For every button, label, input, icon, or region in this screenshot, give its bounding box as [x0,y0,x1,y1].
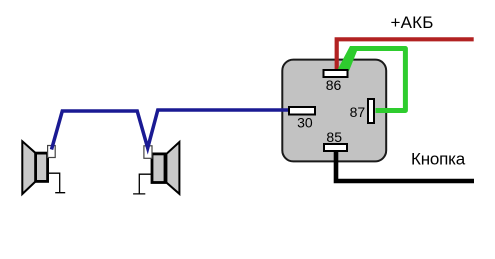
svg-text:30: 30 [297,114,313,130]
svg-text:87: 87 [350,104,366,120]
svg-text:86: 86 [326,77,342,93]
svg-text:+АКБ: +АКБ [391,13,434,32]
svg-text:85: 85 [326,129,342,145]
svg-text:Кнопка: Кнопка [411,150,466,169]
